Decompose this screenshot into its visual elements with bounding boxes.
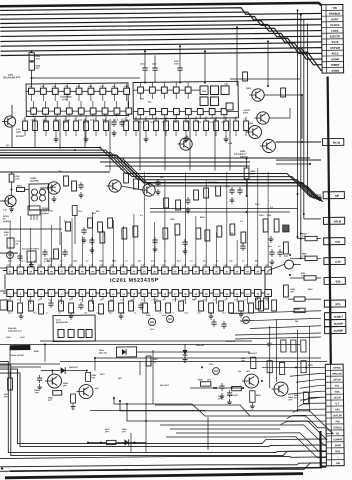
capacitor C611 [221,321,226,329]
wire mid bottom horizontal 1 [160,423,326,447]
wire CN202 row 9 feed b [287,415,326,418]
ground Q206 emitter [52,196,57,202]
transistor Q207 [106,180,121,193]
svg-text:1.4: 1.4 [63,117,65,120]
svg-text:R502 OPT: R502 OPT [248,353,258,355]
label lower left [6,336,39,354]
svg-text:1.4: 1.4 [53,117,55,120]
svg-text:1.4K: 1.4K [17,264,22,267]
resistor above IC 5 [175,224,180,235]
svg-text:C2.4: C2.4 [173,121,177,124]
wire left elbow 2 [0,363,150,457]
ground C208 [79,192,84,198]
svg-text:1.4B: 1.4B [40,85,45,88]
svg-text:1.0: 1.0 [120,299,123,301]
wire IC201 top pin 34 drop [195,216,196,267]
wire IC201 bottom pin 19 drop [195,297,197,301]
svg-text:C2.8: C2.8 [203,260,207,262]
wire lower band y358 [95,356,321,361]
label L201 CONVERGE DELAY [60,93,72,101]
svg-text:C202 2200: C202 2200 [208,182,217,184]
svg-text:OPT: OPT [289,399,294,401]
resistor above IC 2 [122,228,127,239]
resistor R247 [88,218,93,228]
capacitor below IC c1 [48,300,53,308]
wire delay block drop 8 [214,119,215,171]
resistor R633 [301,361,313,373]
resistor below IC 16 [199,301,204,311]
svg-text:1.4K: 1.4K [120,264,125,267]
svg-text:SCLM: SCLM [334,397,341,399]
svg-text:1.2K: 1.2K [4,234,9,236]
resistor below IC 19 [229,303,234,313]
wire mid extra h3 [105,164,250,167]
svg-text:R641: R641 [256,394,261,397]
wire delay block drop 6 [164,119,165,171]
wire top bus line 3 [0,16,321,29]
resistor mid-row 6 [74,116,79,136]
port A.IN [324,258,345,265]
connector CN202 bottom-right (17 pins) [325,364,344,466]
wire left edge bottom 2 [0,465,200,467]
wire top bus line 1 [0,7,321,17]
node base net [213,387,233,389]
resistor R640 OPT [229,387,242,398]
svg-text:SCREEN: SCREEN [3,221,12,223]
wire heavy right vertical rail [328,77,331,365]
ground C308 [227,399,232,405]
ground mid-row g5 [184,136,189,142]
wire bottom extra h4 [166,435,326,459]
svg-text:CLOCK: CLOCK [330,23,340,27]
wire bottom net left [0,366,41,369]
wire bottom bundle line 5 [170,455,326,459]
svg-text:4R: 4R [186,135,189,138]
wire CN202 row 6 feed b [304,397,325,400]
diode D382 OPT [50,367,87,374]
svg-text:C2.0: C2.0 [268,246,272,248]
wire V.IN feed [298,237,322,240]
svg-text:1.0: 1.0 [244,299,247,301]
resistor R816 1.5K [244,168,256,179]
svg-text:I: I [338,457,339,459]
inductor L203/4 CDLF060 outline [29,184,49,210]
svg-text:1.0: 1.0 [151,299,154,301]
svg-text:150: 150 [153,361,156,363]
resistor above IC 9 [230,224,235,235]
wire C202 feed [154,55,157,82]
wire bottom net a [10,370,50,378]
capacitor C203 0.047 [174,61,183,73]
svg-text:56K: 56K [291,291,295,293]
svg-text:R2.2: R2.2 [177,260,181,262]
resistor mid-row 16 [184,116,189,136]
delay line L201 value labels [28,84,129,123]
svg-text:C2.4: C2.4 [209,121,213,124]
delay block 2 top pin row [138,86,191,93]
svg-text:BUFFER: BUFFER [16,136,24,138]
wire bottom bundle line 7 [220,463,327,470]
ground C209 [156,189,161,195]
svg-text:1.4: 1.4 [123,117,125,120]
delay line L7J1 outline [53,315,95,341]
resistor mid-row 4 [54,116,59,136]
svg-text:4.7: 4.7 [46,311,48,314]
resistor above IC 7 [205,230,210,241]
svg-text:1.4K: 1.4K [110,264,115,267]
wire left edge bottom 1 [0,457,170,459]
resistor R612 [256,298,261,309]
transistor Q201 buffer (left edge) [2,105,25,148]
resistor R229 [243,72,248,81]
svg-text:UVFLMT: UVFLMT [333,415,343,417]
svg-text:C2.4: C2.4 [138,121,142,124]
resistor R608 OPT [241,357,256,369]
resistor mid-row 2 [33,116,38,136]
wire mid extra h2 [100,160,250,163]
svg-text:SP46 0.86T 4.12: SP46 0.86T 4.12 [8,329,22,332]
svg-text:1.0: 1.0 [17,299,20,301]
transistor Q384 [271,382,293,402]
resistor R230 [281,88,286,97]
svg-text:R608: R608 [295,309,300,311]
svg-text:1.4: 1.4 [223,117,225,120]
svg-text:1.4: 1.4 [243,117,245,120]
label right of IC [268,246,281,248]
resistor mid-row 21 [234,116,239,136]
wire block2 bottom row chain [133,110,238,112]
svg-text:1.0: 1.0 [213,299,216,301]
port SLPMP [325,327,346,334]
wire Q203 collector net [264,95,302,140]
svg-text:1.4: 1.4 [93,117,95,120]
wire IC201 bottom pin 26 drop [267,297,269,303]
svg-text:C204 4.7K/0.027: C204 4.7K/0.027 [10,354,24,357]
wire mid bus line 2 [0,147,322,202]
svg-text:1.4K: 1.4K [141,264,146,267]
wire bottom diode net [88,442,146,443]
svg-text:C213: C213 [259,215,264,217]
node Q381 col [51,370,53,372]
resistor mid-row 7 [84,116,89,136]
svg-text:0.1: 0.1 [164,260,167,262]
resistor below IC 8 [99,304,104,314]
port RCL [324,300,345,307]
wire lower band y344 [0,341,300,348]
wire IC201 top pin 30 drop [236,240,239,267]
delay block 2 bottom pin row [138,108,227,116]
capacitor C210 [225,186,235,195]
svg-text:1.4K: 1.4K [131,264,136,267]
svg-text:C2.8: C2.8 [44,122,48,124]
svg-text:1.4: 1.4 [193,117,195,120]
wire vertical x309 [309,326,311,412]
resistor R382 OPT [48,391,62,402]
svg-text:AGND: AGND [331,57,339,61]
ground C222 [90,247,95,253]
svg-text:1.4K: 1.4K [193,264,198,267]
resistor mid-row 22 [244,116,249,136]
resistor mid-row 14 [164,116,169,136]
wire top bus line 11 [1,52,322,74]
node junction bus x268 [267,40,269,42]
svg-text:1.4B: 1.4B [88,85,93,88]
ground C307b [220,393,225,399]
svg-text:1.0: 1.0 [38,299,41,301]
svg-text:R474 OPT: R474 OPT [160,384,170,387]
resistor below IC 15 [179,301,184,311]
svg-text:OPT: OPT [294,397,299,399]
svg-text:DATA: DATA [331,17,338,21]
wire y229 horizontal [0,228,62,229]
svg-text:OPT: OPT [35,68,40,70]
svg-text:0.027: 0.027 [20,337,25,339]
svg-text:1.0: 1.0 [100,299,103,301]
label L202 XTAL [44,257,54,263]
resistor R301 left [4,378,13,398]
ground below IC g4 [209,313,214,319]
electrolytic C214 [7,252,14,259]
svg-text:1.5K: 1.5K [120,169,125,171]
resistor below IC 5 [59,301,64,311]
svg-text:C2.0: C2.0 [150,329,154,331]
wire bottom extra h2 [90,409,205,412]
port SLOOP [325,320,346,327]
svg-text:AGND: AGND [331,69,339,73]
label C202 2200 [208,182,217,184]
wire vertical net C [302,19,306,219]
wire SIF feed [308,194,322,196]
svg-text:R610: R610 [308,289,313,291]
svg-text:C2.4: C2.4 [162,121,166,124]
resistor R235 [216,186,221,196]
wire mid bus line 3 [0,149,322,203]
svg-text:1.5K: 1.5K [84,312,88,314]
svg-text:PW: PW [336,421,341,423]
svg-text:VOL: VOL [335,385,340,387]
svg-text:4.7K: 4.7K [301,274,306,277]
resistor below IC 2 [18,303,23,313]
svg-text:C220: C220 [146,315,151,317]
svg-text:0.1: 0.1 [242,260,245,262]
wire top bus line 5 [0,24,321,40]
wire IC201 bottom pin 5 drop [50,297,52,303]
svg-text:1.2K: 1.2K [229,260,234,262]
wire L201 top row chain [26,90,128,92]
wire IC201 bottom pin 10 drop [102,297,104,301]
svg-text:1.4: 1.4 [153,117,155,120]
ground C219 [82,237,87,243]
wire IC201 bottom pin 21 drop [215,297,217,305]
resistor above IC 8 [217,226,222,237]
svg-text:CDLF060: CDLF060 [30,181,40,183]
delay block 2 inner cells [200,86,233,111]
svg-text:1.4: 1.4 [73,117,75,120]
wire vertical net D [306,24,310,196]
resistor C213 pair b [274,219,279,232]
svg-text:B.M: B.M [336,279,342,283]
wire IC201 pin 52 left stub [0,267,7,269]
svg-text:4.7K: 4.7K [35,57,40,60]
resistor R614 [272,300,277,311]
node lower v1 [44,344,46,346]
svg-text:AF3: AF3 [335,408,340,411]
wire IC201 bottom pin 8 drop [81,297,83,303]
svg-text:1.0: 1.0 [155,299,158,301]
wire top bus line 9 [1,43,322,63]
dark bar C678 [10,345,30,350]
resistor R609 56K [283,285,295,297]
capacitor C615 [269,249,274,257]
svg-text:1.2K: 1.2K [15,178,20,180]
svg-text:R21: R21 [47,260,50,262]
svg-text:R415 150: R415 150 [196,344,204,347]
wire IC201 bottom pin 22 drop [226,297,228,301]
wire IC201 bottom pin 3 drop [30,297,32,305]
wire IC201 top pin 29 drop [247,180,249,267]
svg-text:ENABLE: ENABLE [329,12,340,16]
wire IC201 bottom pin 13 drop [133,297,135,301]
capacitor C388 OPT [34,375,43,394]
svg-text:1.4K: 1.4K [203,264,208,267]
resistor mid-row 15 [174,116,179,136]
capacitor above IC 2 [182,239,187,247]
wire IC201 top row chain [3,268,268,274]
zener D205 [182,344,187,358]
wire lower band y361 [60,359,327,365]
electrolytic C221 [166,315,173,322]
node V.TRIG j1 [295,366,297,368]
svg-text:TRAP 4MHZ: TRAP 4MHZ [42,209,54,212]
svg-text:L201: L201 [8,74,14,76]
wire switch to rail b [276,163,310,166]
svg-text:0.1: 0.1 [58,312,60,314]
svg-text:1.0: 1.0 [278,246,281,248]
node junction C201/bus [144,50,146,52]
ground C210 [230,197,235,203]
capacitor mid-row C2b [119,119,124,127]
resistor below IC 22 [259,301,264,311]
wire IC201 top pin 39 drop [143,172,145,267]
svg-text:1.4B: 1.4B [228,142,233,145]
port SLMUT [324,313,345,320]
wire IC201 top pin 27 drop [267,172,269,267]
wire top bus line 6 [0,28,321,46]
svg-text:4.7: 4.7 [86,259,89,262]
capacitor C213a [62,249,67,257]
resistor R218 4.7K [29,51,41,61]
resistor below IC 4 [39,304,44,314]
wire mid bus line 5 [0,154,323,205]
svg-text:0.1: 0.1 [210,312,212,314]
capacitor C208 [78,182,83,190]
svg-text:S10MHZ: S10MHZ [333,439,343,441]
wire vertical x146 [145,362,147,452]
resistor below IC 13 [156,301,161,311]
svg-text:SLMUT: SLMUT [334,315,344,319]
wire Q204 output [269,108,290,118]
svg-text:1.4K: 1.4K [213,264,218,267]
ground mid-row g3 [112,130,117,136]
wire IC201 pin 1 left stub [0,290,7,292]
ground mid-row g1 [54,136,59,142]
svg-text:EJECTE: EJECTE [330,34,341,38]
svg-text:1.4B: 1.4B [52,85,57,88]
resistor R684 4.7K [302,232,317,240]
svg-text:STB110: STB110 [333,427,342,429]
svg-text:1.5K: 1.5K [251,173,256,175]
wire CF202 vertical [60,216,76,246]
electrolytic C612 [243,317,250,324]
svg-text:OPT: OPT [63,385,68,387]
wire bottom bundle line 4 [150,451,326,457]
resistor R248 [98,222,103,232]
wire delay block drop 5 [139,119,140,171]
svg-text:OPT: OPT [105,431,110,433]
svg-text:C2.4: C2.4 [222,311,226,314]
wire SLPMP lower a [235,333,321,335]
ground below IC g2 [69,313,74,319]
resistor above IC 6 [196,228,201,239]
svg-text:IC201 M52343SP: IC201 M52343SP [110,277,159,284]
IC201 top pin numbers [9,268,270,276]
svg-text:C21: C21 [138,260,141,262]
wire bottom extra h1 [155,404,292,418]
resistor R383 [71,394,76,403]
resistor below IC 1 [8,301,13,311]
resistor above IC 10 [241,232,246,243]
wire IC201 top pin 49 drop [40,210,41,267]
wire IC201 top pin 47 drop [60,232,63,267]
wire delay block drop 4 [109,119,110,171]
wire y208 horizontal [150,207,298,210]
capacitor C302 [283,225,289,232]
resistor R240 [72,205,77,215]
wire SLOOP feed [240,318,321,321]
wire block2 top row chain [133,89,200,90]
ground Q205 [9,206,14,212]
node Q202/BY44 junction [301,141,303,143]
wire IC201 top pin 41 drop [122,226,125,267]
svg-text:OPT: OPT [48,400,53,402]
resistor above IC 4 [163,228,168,239]
ground FC8 [29,261,34,267]
node junction bus x237 [236,26,238,28]
wire delay block drop 9 [229,119,230,171]
svg-text:OPT: OPT [122,431,127,433]
ground below IC g1 [19,313,24,319]
box FC8 color check [22,248,40,262]
svg-text:1.4K: 1.4K [7,264,12,267]
svg-text:4.3K: 4.3K [94,387,99,390]
resistor R602 col a [281,340,286,352]
wire CN202 row 6 feed [300,397,326,400]
svg-text:R638: R638 [198,379,203,381]
wire C203 feed [179,46,182,82]
wire IC201 bottom pin 24 drop [246,297,248,305]
below-IC value label band [8,309,252,317]
svg-text:A.IN: A.IN [335,260,340,264]
resistor R602 col b [291,340,296,352]
svg-text:1.4K: 1.4K [79,264,84,267]
wire bottom extra h3 [176,431,326,453]
svg-text:0.1: 0.1 [134,312,136,314]
node junction top bus / R218 [30,50,32,52]
svg-text:SRAP: SRAP [335,444,342,447]
svg-text:1.4: 1.4 [22,117,24,120]
port BY.44 [323,138,344,145]
transistor Q202b [260,139,276,152]
